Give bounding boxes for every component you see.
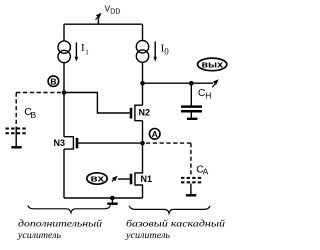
dashed wire node B to CB [16, 92, 61, 94]
wire node B down to N3 [63, 93, 65, 137]
svg-text:усилитель: усилитель [125, 230, 170, 240]
current source I1 [58, 41, 70, 53]
wire N3 gate to node A [77, 142, 143, 144]
capacitor CB dashed [6, 129, 27, 134]
label vh oval [87, 173, 107, 184]
label I1 [81, 42, 89, 56]
label CA [196, 163, 208, 176]
wire output rail [143, 82, 214, 84]
brace left [28, 205, 111, 212]
transistor N1 [131, 143, 143, 198]
wire I0 to output junction [142, 62, 144, 105]
label CH [198, 87, 211, 101]
wire N3 source down [63, 149, 65, 198]
svg-text:вх: вх [91, 174, 105, 184]
Vdd stub wire [97, 18, 99, 24]
wire N2 drain to node A [142, 121, 144, 143]
wire N1 gate lead [118, 178, 131, 180]
input arrow [112, 178, 115, 181]
wire bottom rail [64, 197, 143, 199]
output arrow [212, 84, 215, 88]
ground CB [11, 146, 21, 148]
node B circle label [48, 76, 59, 87]
label I0 [161, 42, 170, 56]
svg-text:N2: N2 [139, 108, 151, 118]
capacitor CA dashed [181, 178, 201, 183]
ground CH [187, 118, 198, 120]
label left amplifier text [17, 219, 103, 241]
svg-text:DD: DD [110, 8, 120, 15]
brace right [129, 206, 210, 213]
svg-text:В: В [31, 110, 37, 120]
svg-text:Н: Н [205, 91, 211, 101]
svg-text:0: 0 [164, 47, 169, 57]
label VDD [105, 4, 121, 16]
I0 arrow [154, 41, 156, 57]
wire top rail [64, 23, 143, 25]
svg-text:А: А [203, 167, 209, 177]
output junction dot [140, 81, 145, 86]
svg-text:N3: N3 [54, 138, 66, 148]
current source I0 [136, 41, 148, 53]
svg-text:вых: вых [202, 60, 224, 71]
label vyh oval [198, 58, 227, 71]
node A circle label [149, 129, 160, 140]
wire I1 to node B [63, 63, 65, 93]
wire right branch down to I0 [142, 24, 144, 40]
wire left branch down to I1 [63, 24, 65, 41]
label CB [24, 106, 36, 120]
label right amplifier text [125, 219, 226, 241]
Vdd arrow [96, 17, 99, 20]
svg-text:базовый каскадный: базовый каскадный [126, 219, 226, 229]
wire node B to N2 gate [64, 93, 130, 114]
ground junction dot [110, 196, 115, 201]
transistor N2 [131, 105, 143, 121]
I1 arrow [75, 42, 77, 57]
svg-text:А: А [152, 129, 158, 139]
dashed wire node A to CA [146, 142, 191, 144]
svg-text:В: В [50, 76, 56, 86]
ground bottom [111, 198, 113, 203]
svg-text:усилитель: усилитель [17, 230, 61, 240]
junction CH dot [189, 81, 194, 86]
svg-text:1: 1 [85, 48, 89, 56]
ground CA [186, 194, 196, 196]
svg-text:N1: N1 [141, 174, 153, 184]
node A junction dot [140, 141, 145, 146]
junction B dot [62, 90, 67, 95]
svg-text:дополнительный: дополнительный [18, 219, 103, 229]
capacitor CH [181, 83, 202, 117]
transistor N3 [64, 137, 77, 149]
